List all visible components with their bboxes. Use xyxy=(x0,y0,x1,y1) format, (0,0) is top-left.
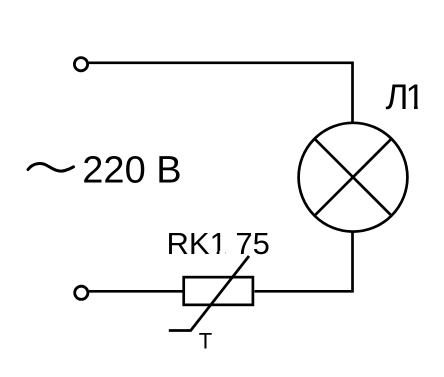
lamp cross line 1 xyxy=(315,139,392,216)
wire (thermistor left to terminal) xyxy=(89,290,184,293)
wire (top horizontal + right vertical down to lamp) xyxy=(88,63,353,124)
svg-text:Т: Т xyxy=(199,328,212,353)
lamp cross line 2 xyxy=(315,139,392,216)
svg-text:Л1: Л1 xyxy=(386,78,424,117)
AC tilde symbol xyxy=(28,164,74,172)
svg-text:220 В: 220 В xyxy=(82,150,181,192)
thermistor RK1 body xyxy=(184,277,253,305)
thermistor diagonal stroke with foot xyxy=(169,256,249,331)
lamp Л1 circle xyxy=(299,123,408,232)
terminal X2 (bottom input) xyxy=(75,286,88,299)
terminal X1 (top input) xyxy=(74,58,87,71)
svg-text:RK1 75: RK1 75 xyxy=(167,226,270,261)
wire (lamp bottom + bottom horizontal to thermistor) xyxy=(255,231,353,291)
